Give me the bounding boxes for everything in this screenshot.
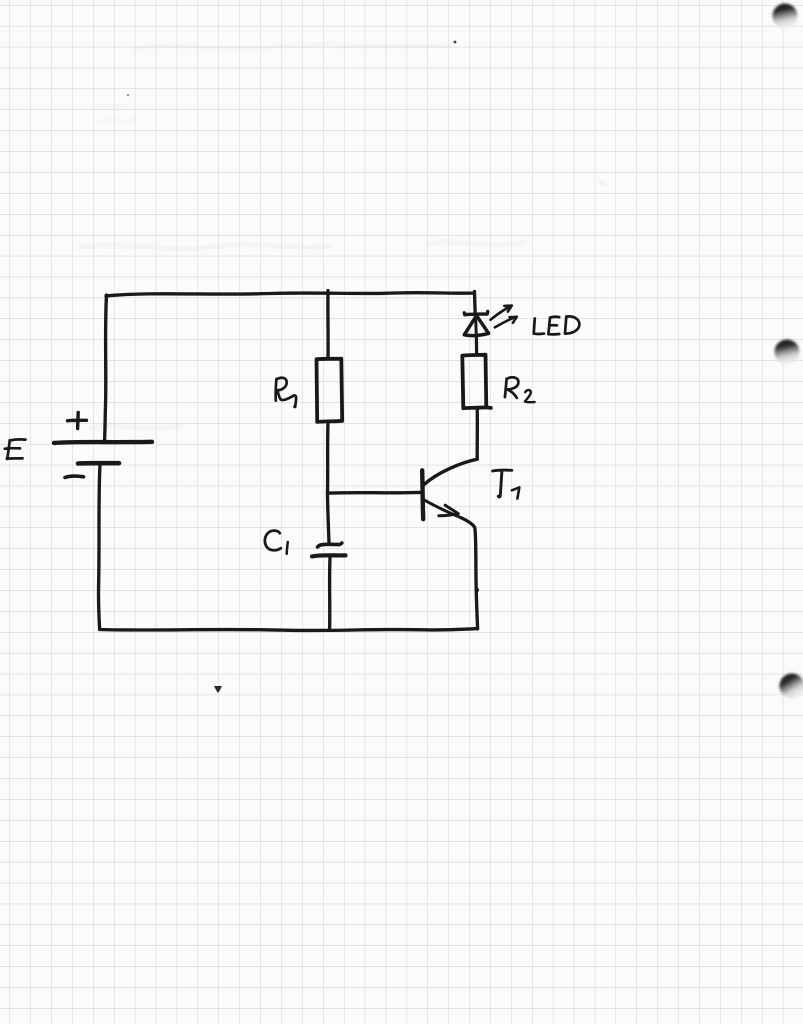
battery E plates bbox=[54, 442, 152, 464]
label C1 bbox=[265, 531, 288, 554]
wire R1 to base node bbox=[326, 422, 330, 493]
wire bottom rail bbox=[100, 629, 478, 631]
transistor T1 body bar bbox=[422, 470, 423, 519]
wire top rail bbox=[106, 293, 475, 296]
wire base from R1 node bbox=[328, 491, 421, 495]
wire R1 branch top bbox=[326, 291, 330, 359]
wire emitter to bottom rail bbox=[461, 518, 479, 629]
wire C1 to bottom rail bbox=[328, 558, 332, 630]
capacitor C1 plates bbox=[312, 543, 346, 556]
label T1 bbox=[493, 470, 520, 499]
LED diode triangle bbox=[464, 316, 488, 336]
label R2 bbox=[505, 377, 535, 402]
transistor T1 emitter with arrow bbox=[424, 500, 461, 518]
wire left rail lower bbox=[99, 464, 100, 629]
wire left rail upper bbox=[105, 295, 107, 442]
label R1 bbox=[276, 378, 297, 409]
resistor R1 bbox=[317, 359, 343, 422]
wire through LED bbox=[474, 316, 478, 355]
wire LED to R2 bbox=[475, 338, 478, 354]
wire base node to C1 bbox=[328, 493, 330, 544]
wire R2 to collector node bbox=[476, 408, 480, 459]
label LED bbox=[534, 316, 580, 334]
LED emission arrows bbox=[491, 306, 517, 328]
battery plus sign bbox=[68, 413, 87, 429]
battery minus sign bbox=[65, 476, 84, 477]
transistor T1 collector wire bbox=[424, 459, 477, 484]
wire LED branch from top rail bbox=[473, 292, 477, 314]
label E bbox=[5, 439, 26, 459]
resistor R2 bbox=[462, 355, 491, 409]
LED diode cathode bar bbox=[464, 311, 487, 314]
